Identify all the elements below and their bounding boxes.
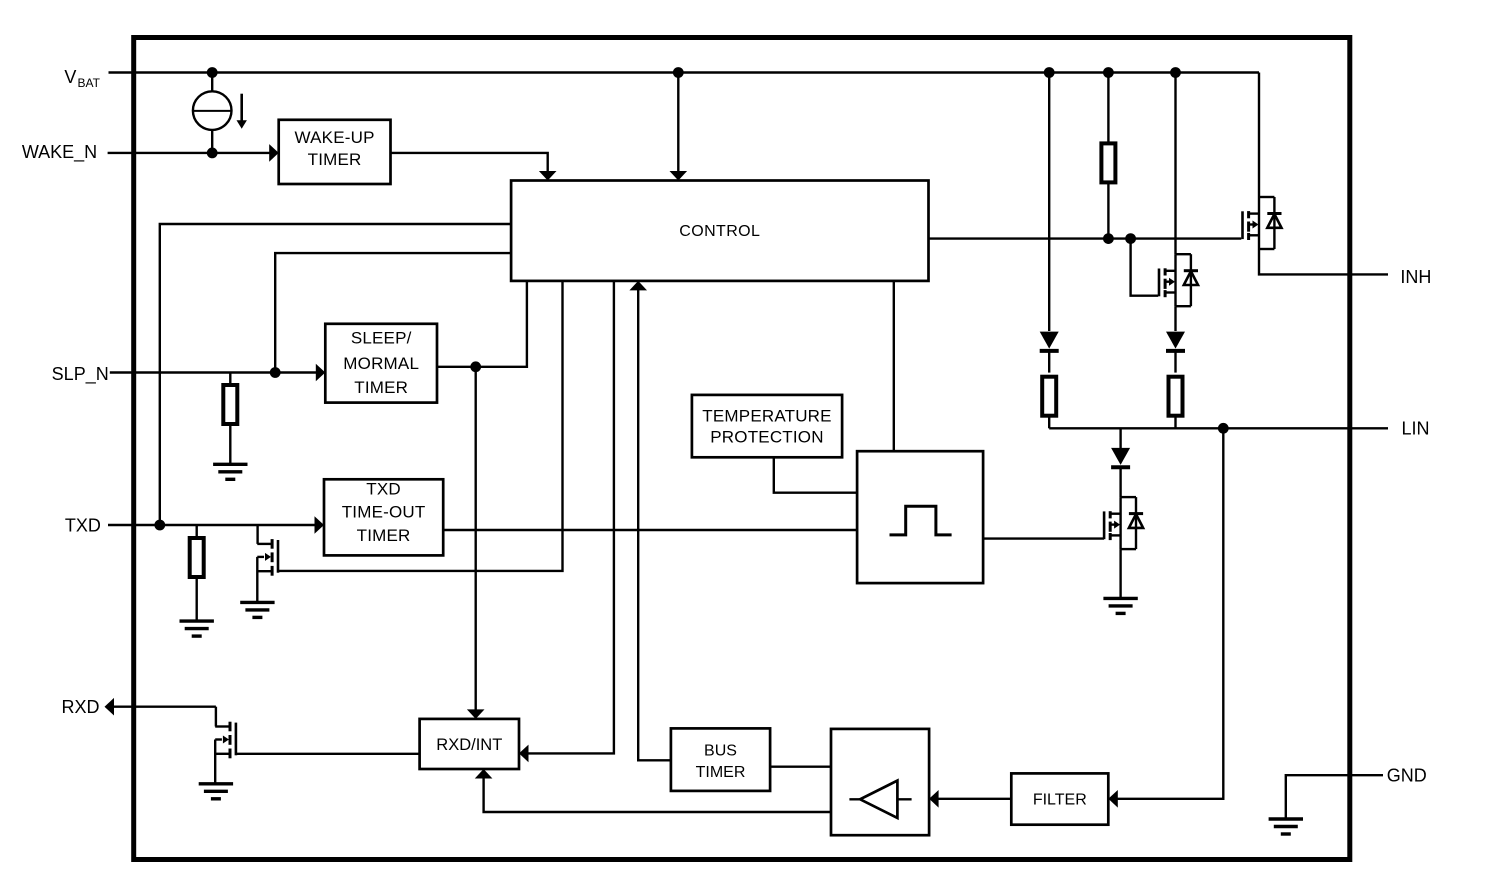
wire FILTER to comparator xyxy=(938,798,1012,800)
wire to Q3 gate xyxy=(1131,239,1159,296)
wire VBAT branch 3 down xyxy=(1174,73,1176,255)
ground G4 xyxy=(199,784,233,799)
svg-text:SLEEP/: SLEEP/ xyxy=(351,329,412,348)
node LIN-filter junction xyxy=(1219,424,1227,432)
svg-text:BAT: BAT xyxy=(78,76,101,90)
svg-text:WAKE-UP: WAKE-UP xyxy=(295,128,375,147)
pin label LIN xyxy=(1401,419,1429,439)
wire Q1 source to INH xyxy=(1259,249,1388,274)
svg-text:TXD: TXD xyxy=(366,480,401,499)
ground G1 xyxy=(213,464,247,479)
block RXD/INT xyxy=(420,719,519,769)
resistor R3 xyxy=(1042,377,1056,416)
wire LIN to FILTER xyxy=(1117,428,1223,799)
transistor Q4 (RXD FET) xyxy=(215,707,217,727)
block comparator U2 xyxy=(831,729,929,835)
svg-text:RXD/INT: RXD/INT xyxy=(436,736,502,754)
svg-text:WAKE_N: WAKE_N xyxy=(22,142,97,163)
svg-text:TEMPERATURE: TEMPERATURE xyxy=(702,407,831,426)
node gate line junction 2 xyxy=(1126,234,1134,242)
wire TXD TIMER output to pulse block xyxy=(443,529,857,531)
diode D3 xyxy=(1119,428,1121,449)
svg-text:MORMAL: MORMAL xyxy=(343,354,419,373)
node VBAT-branch3 junction xyxy=(1171,68,1179,76)
svg-text:SLP_N: SLP_N xyxy=(52,364,109,385)
pin label SLP_N xyxy=(52,364,109,385)
node VBAT-branch1 junction xyxy=(1045,68,1053,76)
wire LIN bus line xyxy=(1049,427,1388,429)
resistor R4 (INH pull branch) xyxy=(1107,73,1109,142)
current source I1 xyxy=(193,73,247,153)
transistor Q2 (TXD input FET) xyxy=(256,525,258,544)
transistor Q3 xyxy=(1159,254,1198,306)
block FILTER xyxy=(1011,773,1108,824)
block WAKE-UP TIMER xyxy=(279,120,391,184)
ground G5 xyxy=(1103,598,1137,613)
IC outer border xyxy=(134,38,1350,860)
ground G3 xyxy=(240,602,274,617)
wire VBAT to CONTROL xyxy=(677,73,679,173)
node SLEEP output junction xyxy=(472,363,480,371)
svg-text:V: V xyxy=(64,67,76,87)
wire RXD output xyxy=(113,706,216,708)
wire SLEEP TIMER output to CONTROL xyxy=(437,281,527,367)
block SLEEP/MORMAL TIMER xyxy=(325,324,437,403)
wire comparator output to RXD/INT xyxy=(484,778,831,813)
block BUS TIMER xyxy=(671,728,770,791)
svg-text:BUS: BUS xyxy=(704,743,737,760)
block pulse shaper U1 xyxy=(857,451,983,583)
wire SLP_N xyxy=(110,371,317,373)
wire Q2 gate to CONTROL xyxy=(279,281,563,571)
block TXD TIME-OUT TIMER xyxy=(324,479,443,555)
pin label INH xyxy=(1400,267,1431,287)
transistor Q5 (LIN driver) xyxy=(1104,497,1143,549)
resistor R2 xyxy=(195,525,197,538)
block CONTROL xyxy=(511,181,928,281)
wire VBAT to Q1 drain xyxy=(1258,73,1260,198)
svg-text:TXD: TXD xyxy=(65,516,101,536)
resistor R1 xyxy=(229,373,231,385)
node VBAT-branch2 junction xyxy=(1104,68,1112,76)
wire CONTROL to pulse block xyxy=(893,281,895,451)
ground G2 xyxy=(180,621,214,636)
pin label GND xyxy=(1387,766,1427,786)
svg-text:RXD: RXD xyxy=(61,697,99,717)
wire WAKE-UP TIMER to CONTROL xyxy=(391,153,548,172)
wire CONTROL left input 2 xyxy=(275,253,511,372)
transistor Q1 (INH driver) xyxy=(1243,197,1282,249)
wire CONTROL left input 1 xyxy=(160,224,511,525)
wire WAKE_N xyxy=(108,152,270,154)
svg-text:LIN: LIN xyxy=(1401,419,1429,439)
pin label VBAT xyxy=(64,67,100,90)
node WAKE_N junction xyxy=(208,149,216,157)
block TEMPERATURE PROTECTION xyxy=(692,395,842,457)
node SLP_N junction xyxy=(271,368,279,376)
svg-text:TIMER: TIMER xyxy=(308,150,362,169)
wire SLEEP junction down to RXD/INT xyxy=(475,367,477,711)
ground G6 xyxy=(1269,819,1303,834)
wire BUS TIMER to CONTROL xyxy=(638,290,671,761)
wire TEMPERATURE PROTECTION to pulse block xyxy=(774,457,857,492)
svg-text:GND: GND xyxy=(1387,766,1427,786)
wire CONTROL to RXD/INT right input xyxy=(528,281,614,754)
pin label WAKE_N xyxy=(22,142,97,163)
wire CONTROL to Q1 gate xyxy=(929,237,1242,239)
wire GND xyxy=(1286,775,1383,819)
svg-text:FILTER: FILTER xyxy=(1033,792,1087,809)
wire pulse block to Q5 gate xyxy=(983,537,1104,539)
wire VBAT branch 1 down xyxy=(1048,73,1050,332)
svg-text:PROTECTION: PROTECTION xyxy=(710,428,823,447)
diode D2 xyxy=(1166,332,1185,351)
resistor R5 xyxy=(1169,377,1183,416)
svg-text:TIMER: TIMER xyxy=(354,378,408,397)
svg-text:TIMER: TIMER xyxy=(696,764,746,781)
wire Q4 gate to RXD/INT xyxy=(237,753,420,755)
wire BUS TIMER to comparator xyxy=(770,766,831,768)
wire VBAT rail xyxy=(109,71,1260,73)
diode D1 xyxy=(1040,332,1059,351)
svg-text:TIMER: TIMER xyxy=(357,526,411,545)
svg-text:INH: INH xyxy=(1400,267,1431,287)
svg-text:CONTROL: CONTROL xyxy=(679,223,760,240)
svg-text:TIME-OUT: TIME-OUT xyxy=(342,503,426,522)
wire TXD xyxy=(108,524,316,526)
node VBAT-current-source junction xyxy=(208,68,216,76)
node TXD junction xyxy=(156,521,164,529)
node gate line junction 1 xyxy=(1104,234,1112,242)
pin label TXD xyxy=(65,516,101,536)
pin label RXD xyxy=(61,697,99,717)
node VBAT-control junction xyxy=(674,68,682,76)
